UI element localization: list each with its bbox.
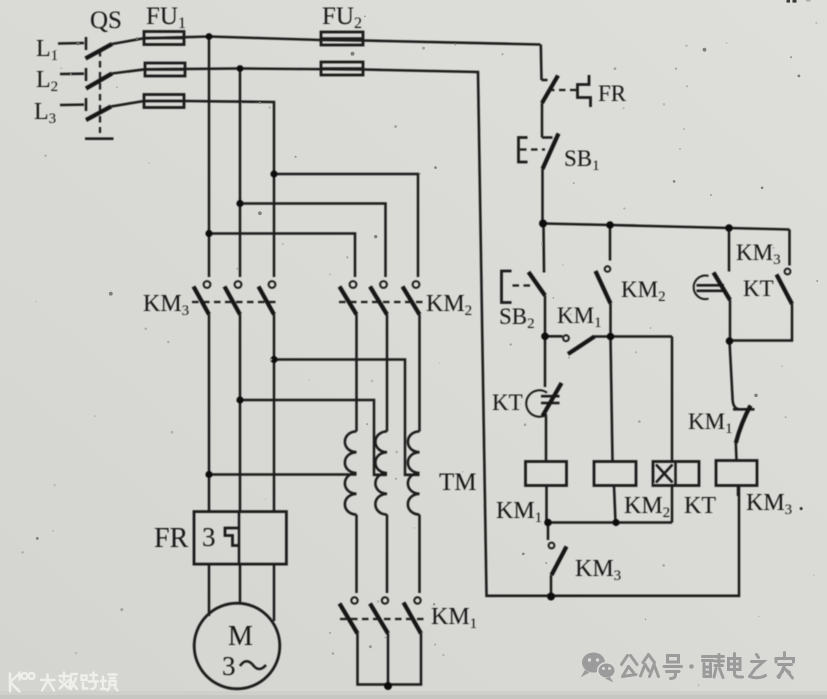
svg-text:KT: KT (684, 493, 716, 519)
svg-text:FR: FR (598, 81, 627, 106)
svg-text:3: 3 (202, 522, 216, 552)
svg-text:FR: FR (154, 523, 189, 554)
svg-text:QS: QS (90, 7, 122, 34)
svg-text:M: M (228, 621, 253, 652)
svg-text:3: 3 (222, 651, 236, 681)
svg-text:KM3 .: KM3 . (746, 490, 804, 518)
svg-text:TM: TM (439, 469, 477, 496)
svg-text:KT: KT (743, 276, 774, 301)
svg-text:KT: KT (492, 390, 523, 415)
